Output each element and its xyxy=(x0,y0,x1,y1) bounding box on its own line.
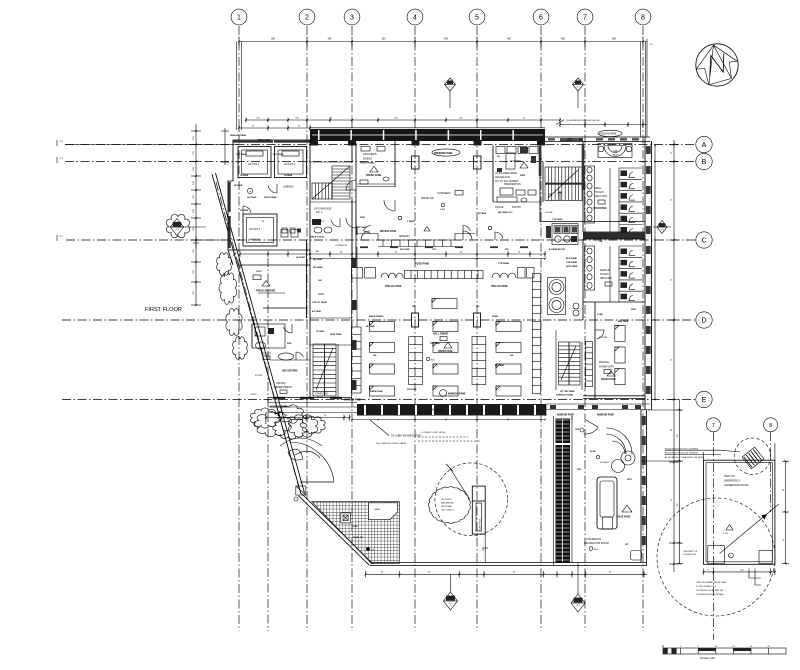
svg-text:MALE DINING: MALE DINING xyxy=(369,315,384,318)
buffet end tables xyxy=(352,268,363,279)
hall dimension row xyxy=(240,253,545,255)
svg-text:SOD: SOD xyxy=(353,526,358,528)
svg-text:MALE TOILET: MALE TOILET xyxy=(310,236,325,239)
svg-text:BED PANE: BED PANE xyxy=(618,320,629,323)
svg-text:NO. 2: NO. 2 xyxy=(317,397,324,399)
svg-text:TRD: TRD xyxy=(577,469,582,471)
svg-text:FIRST FLOOR: FIRST FLOOR xyxy=(145,307,182,313)
svg-text:(C) ALUMINUM WINDOW LEDGE: (C) ALUMINUM WINDOW LEDGE xyxy=(566,119,600,122)
wall line extension right xyxy=(648,409,680,411)
svg-text:2: 2 xyxy=(305,15,309,22)
kitchen south wall xyxy=(540,221,645,223)
level diamond left xyxy=(170,219,183,236)
tree trunk lines xyxy=(280,438,322,446)
window band dimension xyxy=(246,119,560,121)
svg-text:SHW: SHW xyxy=(287,343,292,345)
kitchen equipment circles small xyxy=(573,303,579,309)
svg-text:4 LVL: 4 LVL xyxy=(723,533,729,535)
svg-text:PREPARATION: PREPARATION xyxy=(504,183,521,186)
svg-text:LRD PCMOL L: LRD PCMOL L xyxy=(441,510,456,512)
svg-text:A/C PANE: A/C PANE xyxy=(312,310,322,313)
svg-text:ML PANE: ML PANE xyxy=(366,325,375,328)
svg-text:TOILET/: TOILET/ xyxy=(600,273,609,276)
svg-text:DORMITORY: DORMITORY xyxy=(599,366,615,369)
svg-text:CEILING+PVC: CEILING+PVC xyxy=(495,177,511,179)
left cross ticks at C line xyxy=(195,236,197,249)
grid 8 double line xyxy=(640,42,642,138)
pool xyxy=(597,477,617,529)
grid bubble 7 xyxy=(577,9,593,25)
generator level marker xyxy=(726,525,733,531)
canteen door arcs south xyxy=(364,226,372,231)
hall west cell strip xyxy=(352,327,362,393)
svg-text:PREP: PREP xyxy=(520,175,526,177)
male toilet fixtures corridor xyxy=(312,219,321,225)
dimension right top xyxy=(560,124,647,126)
svg-text:OFFICE: OFFICE xyxy=(495,207,504,209)
svg-text:1: 1 xyxy=(237,15,241,22)
svg-text:WINDOW PANE: WINDOW PANE xyxy=(230,134,247,137)
officers dining room xyxy=(394,141,396,187)
staircase no.4 xyxy=(559,342,581,385)
svg-text:FD PANE: FD PANE xyxy=(240,209,249,212)
generator dimension right xyxy=(785,461,787,564)
svg-text:FRESH AIR: FRESH AIR xyxy=(421,197,434,200)
svg-text:+2.5: +2.5 xyxy=(59,141,63,143)
svg-text:DW: DW xyxy=(549,194,552,196)
svg-text:STORE: STORE xyxy=(545,212,553,214)
north wall canteen dark ticks xyxy=(360,246,368,248)
pergola edge lines xyxy=(553,416,555,565)
ahu room wall xyxy=(239,265,241,268)
grid bubble C xyxy=(696,232,712,248)
generator room rect xyxy=(704,460,775,564)
svg-text:SRV PANE: SRV PANE xyxy=(400,248,410,251)
dorm dimension ticks right xyxy=(654,145,656,400)
recreation room walls xyxy=(571,416,573,420)
flagpole base xyxy=(472,486,485,534)
grid 1 double line xyxy=(236,42,238,131)
svg-text:LIFT PANE: LIFT PANE xyxy=(273,153,284,156)
svg-text:WNDW PANE: WNDW PANE xyxy=(370,390,383,393)
trees more xyxy=(250,408,279,428)
svg-text:(B) 600 MM ACOUSTIC LOUVRE A.: (B) 600 MM ACOUSTIC LOUVRE A. xyxy=(665,447,699,450)
diagonal grid line xyxy=(216,182,300,492)
level marker diamond xyxy=(573,78,584,91)
generator diagonal xyxy=(719,515,765,554)
svg-text:3: 3 xyxy=(350,15,354,22)
svg-text:PANE: PANE xyxy=(492,315,498,318)
bottom wall lower building xyxy=(370,562,647,564)
right dimension chain xyxy=(673,140,675,572)
svg-text:GENERATOR ROOM: GENERATOR ROOM xyxy=(724,484,748,487)
svg-text:(A) PANE: (A) PANE xyxy=(313,258,323,261)
svg-text:FRESH PANE: FRESH PANE xyxy=(360,162,374,165)
grid bubble E xyxy=(696,391,712,407)
terrace band left section xyxy=(268,402,357,404)
svg-text:HSE KEEPING: HSE KEEPING xyxy=(282,371,298,373)
svg-text:(A) SHAFT: (A) SHAFT xyxy=(296,256,306,259)
svg-text:LOUVRE TBC: LOUVRE TBC xyxy=(683,554,697,556)
door arcs west rooms xyxy=(284,327,293,333)
terrace notch box xyxy=(369,503,398,520)
svg-text:E: E xyxy=(702,397,707,404)
left wall lower ticks xyxy=(56,140,58,146)
svg-text:8: 8 xyxy=(641,15,645,22)
svg-text:CORR: CORR xyxy=(597,314,603,316)
svg-text:PIPE: PIPE xyxy=(613,151,618,153)
officers dining fixtures xyxy=(377,147,385,152)
detail grid line 8 xyxy=(770,432,772,512)
svg-text:RECREATION ROOM: RECREATION ROOM xyxy=(584,542,609,545)
east servery arcs xyxy=(495,232,503,239)
generator top dim line xyxy=(703,452,705,460)
svg-text:NO. 1: NO. 1 xyxy=(316,211,323,214)
toilet stalls lower xyxy=(619,245,642,247)
left boundary lower building xyxy=(545,404,547,416)
svg-text:(D) LOWER RD LEVEL LATER: (D) LOWER RD LEVEL LATER xyxy=(376,442,407,445)
svg-text:WINDOW PANE: WINDOW PANE xyxy=(448,393,466,396)
svg-text:W.C.: W.C. xyxy=(252,317,257,319)
svg-text:STAIRCASE: STAIRCASE xyxy=(315,393,328,396)
svg-text:FRESH PANE: FRESH PANE xyxy=(601,378,616,381)
svg-text:FEMALE: FEMALE xyxy=(600,269,610,272)
grid line 2 xyxy=(306,26,308,631)
kitchen south counter xyxy=(493,201,540,203)
svg-text:(W) SODVT: (W) SODVT xyxy=(441,499,453,501)
svg-text:8: 8 xyxy=(769,423,772,429)
svg-text:LIFT NO.2: LIFT NO.2 xyxy=(284,163,296,166)
svg-text:LIFT NO.1: LIFT NO.1 xyxy=(248,163,260,166)
svg-text:STM PANE: STM PANE xyxy=(566,261,578,264)
pergola middle white line xyxy=(562,419,564,562)
svg-text:ML PANE: ML PANE xyxy=(495,364,504,367)
small dashed circle louver xyxy=(734,438,770,474)
svg-text:GEN. ROOM AND 1M RD. WALL: GEN. ROOM AND 1M RD. WALL xyxy=(696,581,728,584)
grid bubble 8 xyxy=(635,9,651,25)
servery counter stepped xyxy=(357,234,475,241)
grid bubble A xyxy=(696,136,712,152)
svg-text:SOUNDPROOF AS PER 300: SOUNDPROOF AS PER 300 xyxy=(696,589,724,592)
terrace edge band dark xyxy=(357,404,546,416)
corridor wall vertical xyxy=(306,240,308,318)
svg-text:RECESS PANE: RECESS PANE xyxy=(380,230,397,233)
svg-text:SERVERY: SERVERY xyxy=(399,236,410,238)
svg-text:SIDE PANE: SIDE PANE xyxy=(330,333,342,336)
grid line 4 xyxy=(414,26,416,631)
svg-text:CANTEEN: CANTEEN xyxy=(437,191,450,195)
kitchen west wall xyxy=(492,146,494,203)
svg-text:SLIDE: SLIDE xyxy=(590,451,596,453)
west partition walls 2 xyxy=(270,359,310,361)
svg-text:DINING: DINING xyxy=(363,157,372,161)
kitchen east wall xyxy=(539,141,541,222)
scale bar xyxy=(663,648,786,654)
grid bubble D xyxy=(696,312,712,328)
svg-text:LOBBY: LOBBY xyxy=(250,394,257,396)
dimension row above canteen wall xyxy=(239,127,310,129)
big dashed circle xyxy=(657,498,775,616)
svg-text:W PANE: W PANE xyxy=(478,212,487,215)
svg-text:D: D xyxy=(701,318,706,325)
svg-text:+ LOWER COURT LEVEL: + LOWER COURT LEVEL xyxy=(420,432,446,434)
svg-text:TBL PANE: TBL PANE xyxy=(430,342,440,345)
grid line 1a xyxy=(267,258,269,631)
buffet end arches right xyxy=(492,273,500,278)
svg-text:WTR: WTR xyxy=(627,479,632,481)
svg-text:BASE PANE: BASE PANE xyxy=(617,516,631,519)
stall door arcs upper extra xyxy=(609,168,611,232)
svg-text:SPLASH: SPLASH xyxy=(600,461,609,464)
dorm door arc xyxy=(597,330,604,339)
svg-text:TERRACE PANE: TERRACE PANE xyxy=(556,394,574,397)
svg-text:PART OF: PART OF xyxy=(724,475,735,478)
svg-text:WINDOW PANE: WINDOW PANE xyxy=(597,414,614,417)
svg-text:CTR PANE: CTR PANE xyxy=(498,262,510,265)
toilet room west xyxy=(252,324,285,348)
top wall recreation xyxy=(546,403,650,405)
lower terrace dimension xyxy=(366,573,648,575)
svg-text:(BLW) PAVL: (BLW) PAVL xyxy=(441,505,453,508)
svg-text:A: A xyxy=(702,142,707,149)
staircase no.3 west xyxy=(313,344,336,396)
recreation fixture xyxy=(631,551,642,561)
svg-text:LAWN: LAWN xyxy=(374,508,381,511)
grid line 1 xyxy=(238,26,240,631)
svg-text:W PANE: W PANE xyxy=(234,184,243,187)
svg-text:FRCH PANE: FRCH PANE xyxy=(258,139,271,142)
dormitory beds xyxy=(615,325,625,341)
stair block walls xyxy=(309,140,311,265)
dim leaders upper terrace xyxy=(265,418,267,425)
svg-text:TERRACE: TERRACE xyxy=(430,408,444,412)
svg-text:E. STN 450MM H 2.5: E. STN 450MM H 2.5 xyxy=(696,586,717,588)
svg-text:LN PANE: LN PANE xyxy=(247,196,257,199)
west wall dark segments xyxy=(352,258,357,268)
grid line C xyxy=(66,239,696,241)
buffet end arches left xyxy=(381,273,388,278)
svg-text:TOILET/: TOILET/ xyxy=(595,191,604,194)
columns at lift lobby xyxy=(281,230,288,238)
svg-text:TOILET: TOILET xyxy=(263,354,272,356)
svg-text:OFFICE /: OFFICE / xyxy=(276,382,286,385)
column grid4 mid xyxy=(412,313,419,327)
svg-text:FRESH PANE: FRESH PANE xyxy=(366,174,382,177)
generator bottom leaders xyxy=(749,569,761,578)
small dim ticks hall south xyxy=(352,419,545,421)
buffet counter long xyxy=(405,271,484,279)
bottom level diamonds xyxy=(443,592,457,610)
svg-text:UTILITY PANE: UTILITY PANE xyxy=(312,301,327,304)
svg-text:TRELLIS PANE: TRELLIS PANE xyxy=(385,285,402,288)
right wall lower xyxy=(640,410,642,562)
svg-text:REFRESHMENT: REFRESHMENT xyxy=(274,386,293,389)
svg-text:FR PANE: FR PANE xyxy=(313,266,323,269)
svg-text:CORRIDOR: CORRIDOR xyxy=(335,245,347,247)
svg-text:OFFICER'S: OFFICER'S xyxy=(363,152,377,156)
svg-text:6: 6 xyxy=(539,15,543,22)
svg-text:KITCHEN: KITCHEN xyxy=(510,160,521,163)
wall dining west xyxy=(356,226,358,235)
svg-text:LN PANE: LN PANE xyxy=(284,174,293,177)
svg-text:4 AVL: 4 AVL xyxy=(440,208,446,211)
svg-text:EMERGENCY: EMERGENCY xyxy=(724,480,740,483)
svg-text:FRESH PANE: FRESH PANE xyxy=(438,350,453,353)
svg-text:F PANE: F PANE xyxy=(407,220,415,223)
svg-text:SRV PANE: SRV PANE xyxy=(407,388,417,391)
dim ticks mid left xyxy=(196,239,225,241)
grid line B xyxy=(65,161,696,163)
kitchen kettles xyxy=(549,280,564,295)
top window wall band xyxy=(310,129,545,141)
svg-text:(SERVICE): (SERVICE) xyxy=(249,239,260,241)
left dim between building and generator xyxy=(679,400,681,564)
svg-text:FRESH AIR PANE: FRESH AIR PANE xyxy=(256,290,276,293)
lift block outer wall xyxy=(228,140,310,250)
left dimension line xyxy=(195,124,197,305)
hall east cell strip xyxy=(533,274,541,394)
svg-text:F DORM: F DORM xyxy=(599,337,607,339)
diagonal dim slashes xyxy=(233,252,235,255)
grid bubble B xyxy=(696,153,712,169)
terrace railing diagonal xyxy=(299,496,370,566)
lift no.2 xyxy=(275,147,307,178)
dining tables xyxy=(432,299,457,309)
top dimension line xyxy=(239,41,647,43)
slide arcs xyxy=(606,428,632,454)
band column stubs xyxy=(310,141,318,146)
lift no.3 room xyxy=(243,214,277,246)
svg-text:PASS: PASS xyxy=(318,293,324,296)
svg-text:+2.5: +2.5 xyxy=(59,236,63,238)
grid line 5 xyxy=(476,26,478,631)
grid line 8 xyxy=(642,26,644,631)
left diagonal wall xyxy=(212,174,301,494)
hall west wall xyxy=(351,258,353,400)
svg-text:PAR ARE AVL: PAR ARE AVL xyxy=(441,502,455,505)
svg-text:4: 4 xyxy=(413,15,417,22)
column grid5 top xyxy=(474,156,482,169)
svg-text:+2.5: +2.5 xyxy=(59,158,63,160)
west room partition 1 xyxy=(263,307,307,309)
svg-text:LIFT PANE: LIFT PANE xyxy=(236,153,247,156)
generator dimension bottom xyxy=(704,571,775,573)
planter box xyxy=(341,513,351,523)
svg-text:FLAG POLE: FLAG POLE xyxy=(479,518,482,531)
svg-text:FRCH PANE: FRCH PANE xyxy=(264,196,277,199)
hall dimension row 2 xyxy=(310,258,545,260)
grid line A xyxy=(65,144,696,146)
svg-text:LIFT NO.3: LIFT NO.3 xyxy=(249,228,261,231)
pergola dark strip xyxy=(556,419,571,444)
svg-text:7: 7 xyxy=(712,423,715,429)
lift no.1 xyxy=(238,147,271,178)
svg-text:WELL: WELL xyxy=(595,187,602,190)
louver detail xyxy=(742,447,764,469)
dormitory wardrobe strip xyxy=(586,342,593,387)
toilet mid wall xyxy=(583,233,645,240)
urinal column 2 xyxy=(585,246,595,290)
svg-text:M. TLT: M. TLT xyxy=(317,221,325,223)
canteen west door arc xyxy=(346,218,356,228)
svg-text:+3.2: +3.2 xyxy=(448,87,452,89)
tree symbol left xyxy=(166,214,189,237)
generator subrooms xyxy=(708,546,725,564)
svg-text:5: 5 xyxy=(475,15,479,22)
svg-text:WINDOW PANE: WINDOW PANE xyxy=(344,399,361,402)
door arc top recreation xyxy=(584,427,599,434)
toilet stalls upper xyxy=(619,167,642,169)
grid bubble 6 xyxy=(533,9,549,25)
stair3 walls xyxy=(309,341,311,398)
svg-text:B: B xyxy=(702,159,707,166)
stair4 walls xyxy=(555,330,557,390)
svg-text:UP TRD PANE: UP TRD PANE xyxy=(560,390,575,393)
top wall band right section xyxy=(545,136,650,138)
ablution fountain xyxy=(604,146,626,157)
svg-text:FOOD PANE: FOOD PANE xyxy=(593,207,607,210)
buffet line strips xyxy=(409,337,423,385)
grid line A solid part xyxy=(65,144,238,146)
corner column detail xyxy=(296,486,306,495)
north arrow xyxy=(696,44,738,86)
svg-text:WTR PANE: WTR PANE xyxy=(566,265,578,268)
svg-text:7: 7 xyxy=(583,15,587,22)
svg-text:UP PANE: UP PANE xyxy=(316,330,325,333)
lift lobby door arcs xyxy=(268,186,277,193)
svg-text:DUCT: DUCT xyxy=(613,155,619,157)
grid bubble 4 xyxy=(407,9,423,25)
urinal column xyxy=(585,166,595,223)
interior grid tick crossings xyxy=(306,161,308,163)
grid bubble 1 xyxy=(231,9,247,25)
door at terrace corner xyxy=(300,481,334,483)
svg-text:ABLUTION: ABLUTION xyxy=(600,277,612,280)
kitchen top equipment row xyxy=(496,147,505,154)
svg-text:FEMALE: FEMALE xyxy=(599,361,609,364)
svg-text:STORE: STORE xyxy=(255,375,263,377)
svg-text:WDW: WDW xyxy=(360,217,365,219)
stair2 walls xyxy=(542,162,544,202)
cloud leader xyxy=(450,468,470,499)
terrace top dimension xyxy=(265,417,350,419)
svg-text:(B) PANE SVC: (B) PANE SVC xyxy=(498,211,513,214)
top right corner dimension xyxy=(646,39,648,137)
column grid5 mid xyxy=(474,313,481,327)
trees upper diagonal xyxy=(219,272,237,305)
level marker diamond xyxy=(445,78,456,91)
svg-text:TRD: TRD xyxy=(575,429,580,431)
window pane circled label xyxy=(432,149,460,156)
small fixtures lift lobby xyxy=(282,228,287,233)
grid bubble 3 xyxy=(344,9,360,25)
staircase no.2 xyxy=(545,167,582,183)
flag court dashed circle xyxy=(435,463,508,536)
grid line 3 xyxy=(351,26,353,631)
svg-text:CHILDREN'S: CHILDREN'S xyxy=(586,538,601,541)
prep counter fixtures xyxy=(497,168,502,172)
svg-text:BLR PANE: BLR PANE xyxy=(566,257,578,260)
grid line 6 xyxy=(540,26,542,631)
svg-text:ABLUTION: ABLUTION xyxy=(595,195,607,198)
svg-text:C: C xyxy=(701,238,706,245)
detail bubbles xyxy=(706,418,720,432)
right wall upper xyxy=(644,137,646,410)
svg-text:WINDOW PANE: WINDOW PANE xyxy=(599,133,617,136)
svg-text:WDW: WDW xyxy=(631,309,636,311)
left dimension line 2 xyxy=(224,128,226,165)
staircase no.1 xyxy=(332,166,350,199)
